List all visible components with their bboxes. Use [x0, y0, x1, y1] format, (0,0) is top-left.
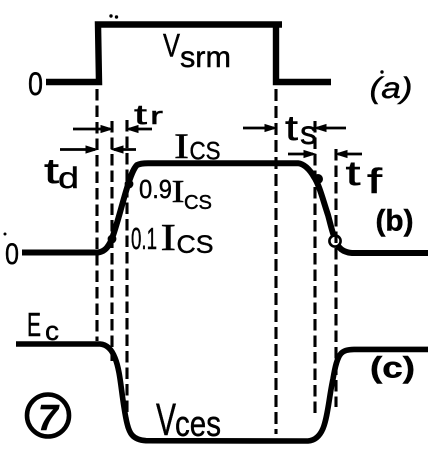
- svg-text:ces: ces: [175, 403, 221, 444]
- svg-text:r: r: [150, 103, 163, 130]
- svg-text:I: I: [174, 126, 189, 166]
- svg-text:0.1: 0.1: [131, 221, 157, 256]
- svg-text:E: E: [27, 306, 41, 343]
- svg-text:0: 0: [5, 238, 19, 271]
- svg-text:0.9: 0.9: [139, 174, 172, 204]
- svg-text:I: I: [172, 173, 185, 209]
- svg-text:d: d: [58, 162, 79, 195]
- svg-text:c: c: [45, 316, 59, 346]
- svg-text:s: s: [300, 114, 317, 151]
- svg-text:CS: CS: [177, 231, 214, 259]
- svg-text:(b): (b): [376, 205, 414, 238]
- svg-text:t: t: [285, 109, 298, 148]
- svg-text:CS: CS: [184, 192, 212, 214]
- svg-text:(a): (a): [370, 72, 413, 105]
- svg-text:CS: CS: [190, 138, 221, 166]
- svg-text:V: V: [163, 28, 181, 64]
- svg-text:f: f: [367, 162, 382, 201]
- svg-text:t: t: [134, 99, 147, 130]
- svg-text:0: 0: [28, 66, 43, 102]
- svg-text:t: t: [346, 155, 362, 193]
- svg-text:V: V: [156, 394, 176, 445]
- svg-text:(c): (c): [370, 352, 415, 385]
- svg-text:srm: srm: [180, 41, 231, 74]
- svg-text:7: 7: [38, 397, 60, 438]
- svg-text:I: I: [161, 217, 177, 259]
